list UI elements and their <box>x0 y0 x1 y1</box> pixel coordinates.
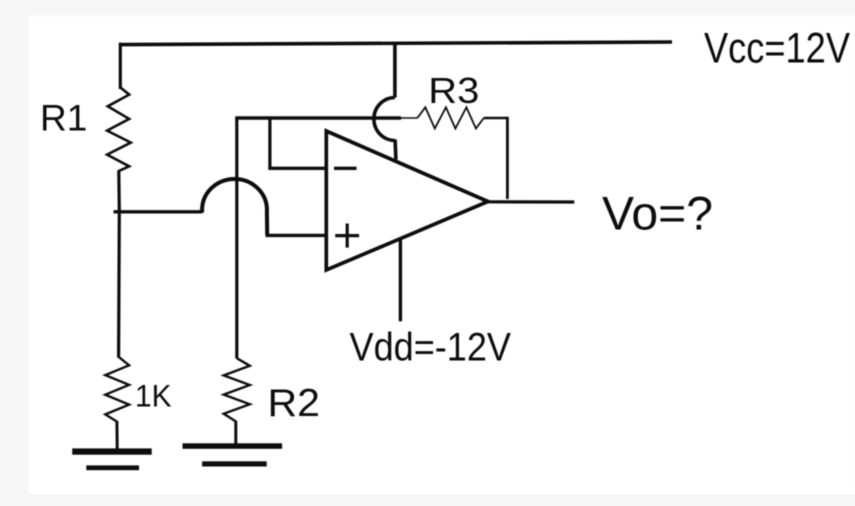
svg-text:Vdd=-12V: Vdd=-12V <box>350 326 512 370</box>
wire feedback horizontal (inverting node to R3) <box>235 116 401 119</box>
svg-text:1K: 1K <box>135 378 172 414</box>
wire hop over R2 wire (arc) <box>202 179 267 235</box>
op-amp minus sign <box>334 167 357 170</box>
resistor R1 <box>107 87 131 171</box>
wire inverting input horizontal <box>268 167 327 170</box>
svg-text:R3: R3 <box>428 70 479 111</box>
resistor 1K <box>105 357 129 422</box>
wire hop on supply wire (C arc) <box>374 98 395 141</box>
wire thin segment into R3 <box>401 117 417 119</box>
ground (under R2) <box>183 443 283 466</box>
wire stub to inverting input <box>268 117 271 169</box>
wire 1K to ground <box>115 421 118 449</box>
wire hop landing to op-amp + input <box>266 234 328 237</box>
wire R2 to ground <box>234 421 237 445</box>
wire node to + input (horizontal segment) <box>114 210 203 213</box>
wire R3 drop to output <box>506 117 509 199</box>
wire supply stub to triangle edge <box>393 140 397 160</box>
resistor R3 <box>417 107 483 128</box>
svg-text:Vcc=12V: Vcc=12V <box>704 25 851 72</box>
resistor R2 <box>224 358 250 421</box>
wire R3 to corner <box>484 117 508 119</box>
op-amp plus sign <box>335 224 359 248</box>
wire Vcc supply vertical to op-amp <box>393 43 397 98</box>
wire left vertical from rail to R1 <box>119 43 122 89</box>
wire R2 vertical (from feedback node down to R2) <box>235 117 238 358</box>
wire Vdd supply from op-amp bottom <box>399 238 402 321</box>
svg-text:Vo=?: Vo=? <box>602 188 713 241</box>
wire Vcc top rail <box>119 42 672 45</box>
wire from R1 bottom through node to 1K resistor <box>117 171 121 358</box>
wire output <box>487 200 575 203</box>
svg-text:R1: R1 <box>40 98 87 139</box>
op-amp U1 triangle <box>326 131 488 270</box>
svg-text:R2: R2 <box>268 382 321 425</box>
ground (under 1K) <box>72 448 152 470</box>
